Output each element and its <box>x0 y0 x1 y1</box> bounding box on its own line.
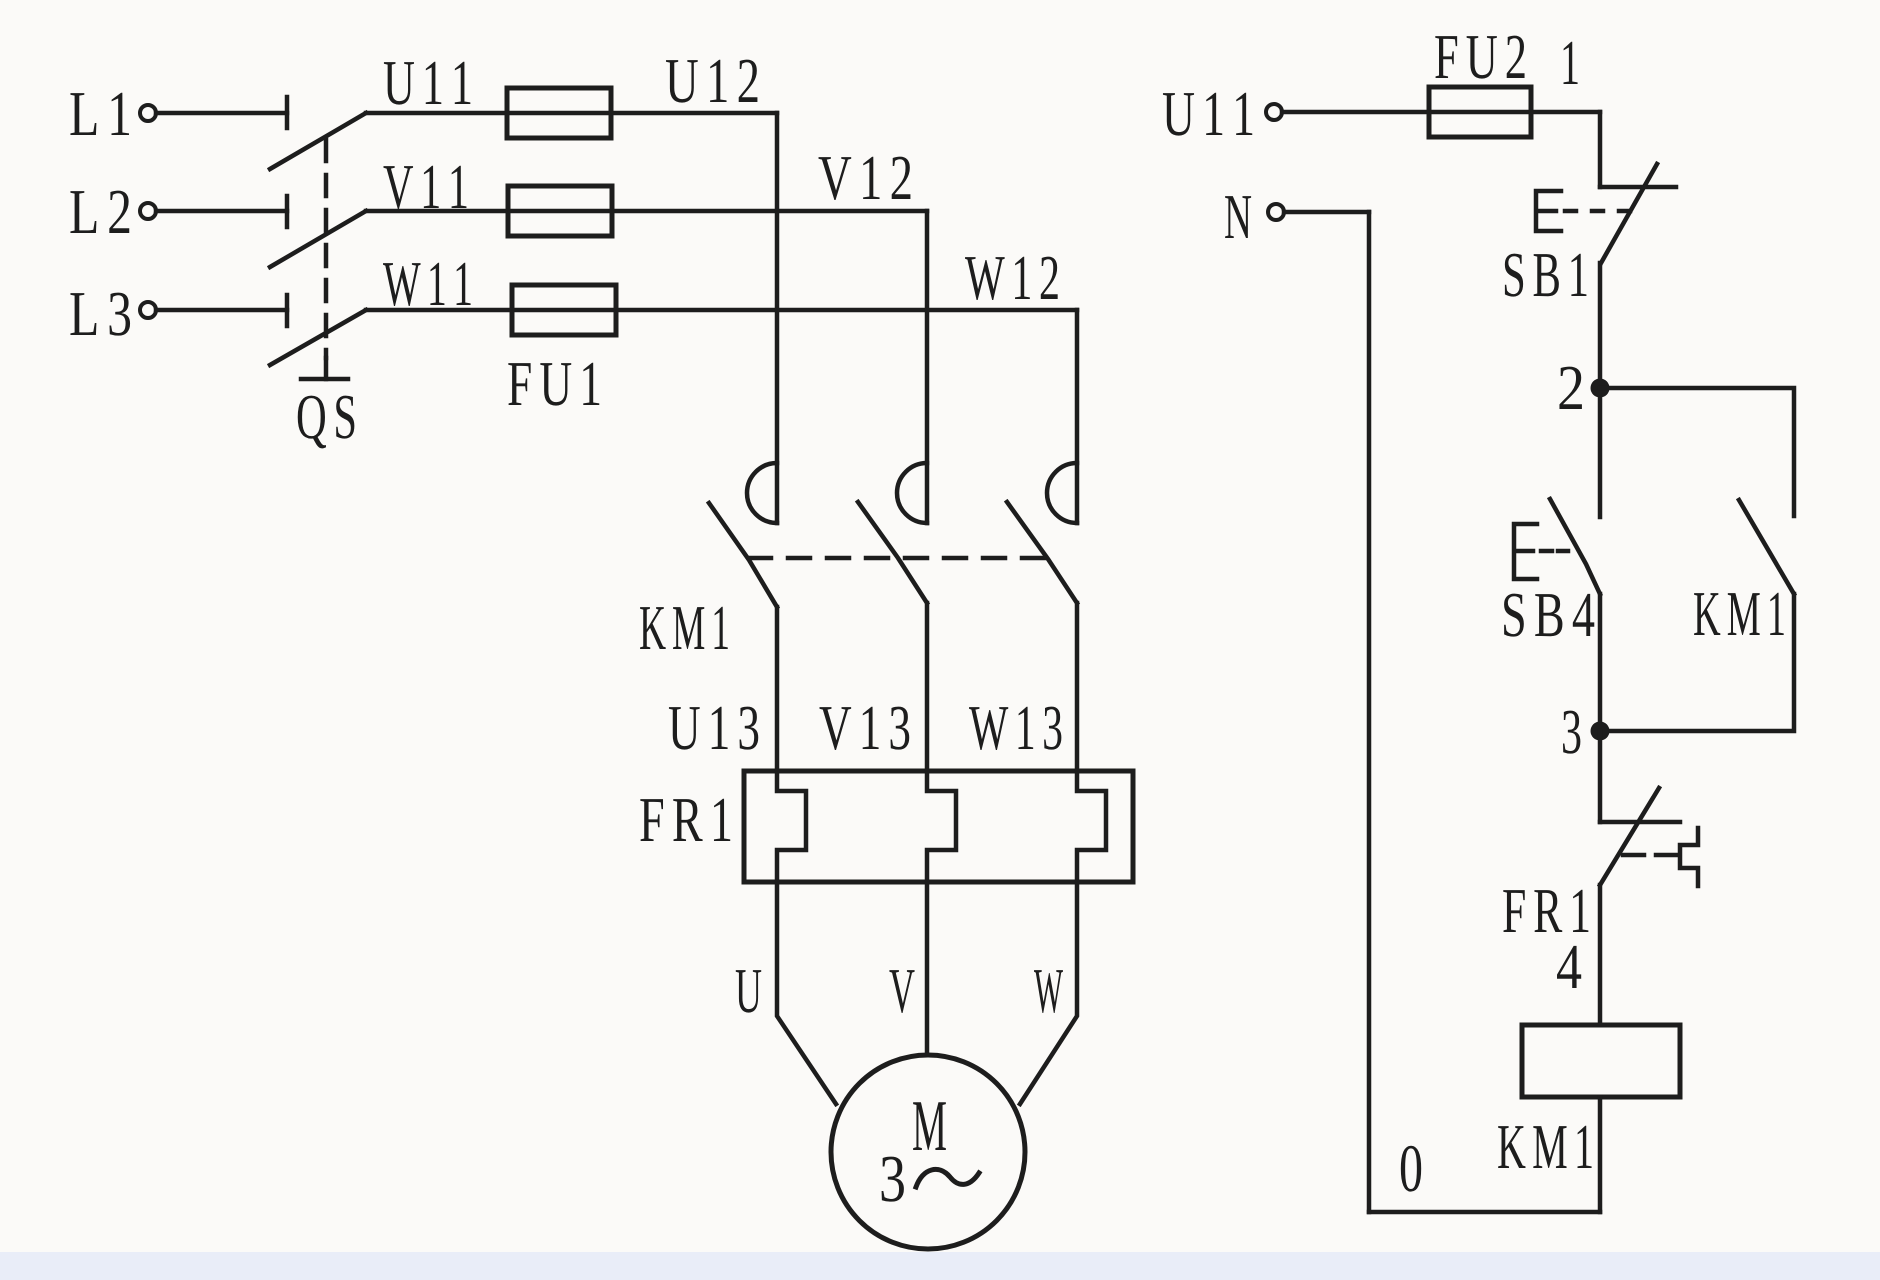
button SB1 cap E shape <box>1536 191 1561 231</box>
wire W13 to motor <box>1020 882 1077 1104</box>
label KM1 at 1693,635 <box>1694 593 1784 635</box>
label W11 at 383,305 <box>383 263 471 306</box>
label W at 1034,1012 <box>1034 970 1063 1013</box>
label L2 at 69,233 <box>70 191 129 233</box>
fuse FU1 pole3 <box>512 285 616 335</box>
label U at 735,1012 <box>736 970 761 1013</box>
switch QS pole3 blade <box>270 310 366 365</box>
label KM1 at 1497,1168 <box>1498 1126 1591 1168</box>
label V12 at 818,199 <box>819 157 911 200</box>
switch QS linkage solid stub <box>324 358 329 379</box>
motor tilde mark <box>916 1169 979 1187</box>
label FU2 at 1434,78 <box>1435 36 1524 79</box>
wire KM1 pole1 lower <box>775 607 780 771</box>
contactor KM1 pole1 arc <box>747 463 777 523</box>
label U11 at 1162,135 <box>1163 93 1252 136</box>
label 4 at 1556,988 <box>1557 946 1581 988</box>
relay FR1 heater element pole3 <box>1077 771 1106 882</box>
terminal L1 circle <box>140 105 156 121</box>
contactor KM1 pole3 arc <box>1047 463 1077 523</box>
motor M circle <box>831 1055 1025 1249</box>
label M at 912,1150 <box>913 1102 946 1150</box>
wire N vertical column <box>1367 212 1372 1212</box>
label SB1 at 1502,296 <box>1505 254 1587 297</box>
switch QS pole2 fixed tick <box>285 196 290 227</box>
button SB4 blade <box>1550 499 1600 594</box>
contactor KM1 pole3 blade <box>1007 502 1077 603</box>
terminal N circle <box>1268 204 1284 220</box>
wire V12 vertical <box>925 211 930 523</box>
wire V11 through fuse <box>366 209 927 214</box>
contact FR1 dashed link <box>1623 853 1676 858</box>
wire L2 horizontal <box>156 209 287 214</box>
switch QS pole3 fixed tick <box>285 295 290 326</box>
terminal U11 circle control <box>1266 104 1282 120</box>
contactor KM1 pole2 blade <box>858 502 927 603</box>
contact FR1 fixed bar <box>1600 820 1680 825</box>
wire KM1 aux down to node3 row <box>1600 594 1794 731</box>
label L3 at 69,335 <box>70 293 130 336</box>
label W13 at 969,749 <box>969 707 1061 750</box>
label FR1 at 1502,932 <box>1503 890 1588 932</box>
label V at 889,1012 <box>889 970 914 1013</box>
switch QS linkage dashed line <box>324 140 329 358</box>
label SB4 at 1501,636 <box>1504 594 1594 637</box>
label QS at 296,438 <box>298 396 355 449</box>
relay FR1 heater box <box>744 771 1133 882</box>
wire W12 vertical <box>1075 310 1080 523</box>
label W12 at 965,299 <box>965 257 1058 300</box>
switch QS pole2 blade <box>270 211 366 267</box>
label 3 at 879,1201 <box>882 1157 904 1202</box>
label FU1 at 507,405 <box>508 363 599 406</box>
wire U13 to motor <box>777 882 836 1104</box>
label N at 1224,238 <box>1225 196 1251 238</box>
button SB4 cap E shape <box>1514 524 1537 579</box>
wire node2 branch right and down <box>1600 388 1794 516</box>
label V13 at 819,749 <box>820 707 910 750</box>
wire SB4 to node3 <box>1598 594 1603 731</box>
node 3 junction dot <box>1591 722 1610 741</box>
wire node3 down to FR1 contact <box>1598 731 1603 822</box>
label 3 at 1561,753 <box>1563 711 1580 754</box>
wire V13 to motor <box>925 882 930 1055</box>
terminal L2 circle <box>140 203 156 219</box>
button SB1 actuator dashed link <box>1565 209 1632 214</box>
coil KM1 box <box>1522 1025 1680 1097</box>
label U13 at 668,749 <box>669 707 758 750</box>
switch QS pole1 fixed tick <box>285 97 290 128</box>
button SB1 fixed bar <box>1600 185 1676 190</box>
contactor KM1 pole1 blade <box>709 503 777 607</box>
wire bottom horizontal to N column <box>1369 1210 1600 1215</box>
wire U11 through fuse <box>366 111 777 116</box>
wire KM1 pole3 lower <box>1075 603 1080 771</box>
label KM1 at 639,649 <box>640 607 728 649</box>
label 2 at 1557,409 <box>1559 367 1581 409</box>
wire L3 horizontal <box>156 308 287 313</box>
wire coil to bottom run <box>1598 1097 1603 1212</box>
contactor KM1 linkage dashed line <box>749 556 1048 561</box>
label U11 at 383,104 <box>384 62 470 105</box>
wire W11 through fuse <box>366 308 1077 313</box>
label 0 at 1399,1191 <box>1401 1146 1421 1192</box>
contact KM1 aux blade <box>1739 500 1794 594</box>
wire FR1 contact to coil <box>1598 885 1603 1025</box>
fuse FU1 pole1 <box>507 88 611 138</box>
button SB1 blade <box>1601 164 1657 263</box>
contact FR1 blade <box>1600 788 1659 885</box>
switch QS pole1 blade <box>270 113 366 169</box>
wire SB1 to node2 <box>1598 263 1603 517</box>
wire U12 vertical <box>775 113 780 523</box>
relay FR1 heater element pole1 <box>777 771 806 882</box>
label FR1 at 639,841 <box>640 799 730 841</box>
label L1 at 69,135 <box>70 93 129 135</box>
terminal L3 circle <box>140 302 156 318</box>
button SB4 actuator dashed link <box>1541 549 1568 554</box>
wire L1 horizontal <box>156 111 287 116</box>
wire U11 through FU2 <box>1282 110 1600 115</box>
wire KM1 pole2 lower <box>925 603 930 771</box>
wire N to corner <box>1284 210 1369 215</box>
label 1 at 1560,84 <box>1564 42 1578 84</box>
label V11 at 383,208 <box>383 166 466 209</box>
wire node1 down to SB1 <box>1598 112 1603 187</box>
relay FR1 actuator bracket <box>1680 828 1698 886</box>
fuse FU2 <box>1429 87 1531 137</box>
relay FR1 heater element pole2 <box>927 771 956 882</box>
node 2 junction dot <box>1591 379 1610 398</box>
switch QS bottom bar <box>301 377 348 382</box>
label U12 at 665,102 <box>666 60 757 103</box>
contactor KM1 pole2 arc <box>897 463 927 523</box>
fuse FU1 pole2 <box>508 186 612 236</box>
